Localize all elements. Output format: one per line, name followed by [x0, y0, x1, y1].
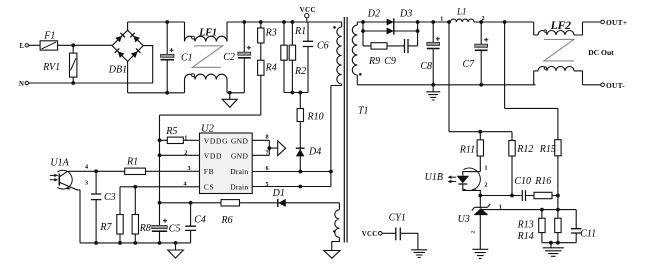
svg-text:L1: L1 [456, 7, 467, 17]
svg-text:F1: F1 [43, 31, 55, 42]
svg-text:D2: D2 [367, 8, 380, 19]
svg-text:3: 3 [188, 165, 191, 172]
svg-text:DB1: DB1 [108, 65, 127, 76]
svg-text:3: 3 [472, 188, 478, 191]
svg-text:R8: R8 [139, 223, 151, 234]
svg-text:C11: C11 [580, 229, 596, 240]
svg-text:8: 8 [266, 134, 269, 141]
svg-text:3: 3 [85, 179, 88, 186]
svg-text:1: 1 [440, 15, 443, 22]
svg-text:DC Out: DC Out [588, 48, 614, 57]
svg-text:4: 4 [184, 181, 187, 188]
svg-text:R4: R4 [265, 62, 277, 73]
svg-text:1: 1 [184, 134, 187, 141]
svg-text:U1A: U1A [50, 157, 69, 168]
svg-text:OUT+: OUT+ [606, 18, 627, 27]
svg-text:C2: C2 [223, 52, 235, 63]
svg-text:7: 7 [266, 149, 269, 156]
svg-text:C5: C5 [169, 224, 181, 235]
svg-text:2: 2 [184, 149, 187, 156]
svg-text:GND: GND [231, 151, 249, 160]
svg-text:VCC: VCC [300, 6, 316, 14]
svg-text:1: 1 [484, 165, 487, 172]
svg-text:R5: R5 [165, 126, 177, 137]
svg-text:FB: FB [204, 167, 215, 176]
svg-text:R11: R11 [459, 145, 475, 156]
svg-text:C10: C10 [514, 176, 531, 187]
svg-text:N: N [19, 81, 24, 88]
svg-text:OUT-: OUT- [606, 81, 625, 90]
svg-text:Drain: Drain [230, 167, 248, 176]
svg-text:D3: D3 [399, 8, 412, 19]
svg-text:R12: R12 [516, 144, 533, 155]
svg-text:D1: D1 [272, 188, 285, 199]
svg-text:VDD: VDD [204, 151, 222, 160]
svg-text:C7: C7 [463, 59, 476, 70]
svg-text:LF2: LF2 [550, 20, 572, 32]
svg-text:U1B: U1B [425, 172, 443, 183]
svg-text:R15: R15 [539, 144, 556, 155]
svg-text:5: 5 [266, 181, 269, 188]
svg-text:LF1: LF1 [198, 27, 217, 38]
svg-text:C9: C9 [384, 56, 396, 67]
svg-text:Drain: Drain [230, 183, 248, 192]
svg-text:2: 2 [470, 231, 476, 234]
svg-text:R1: R1 [294, 26, 306, 37]
svg-text:2: 2 [484, 182, 487, 189]
svg-text:U3: U3 [458, 214, 470, 225]
svg-text:6: 6 [266, 165, 269, 172]
svg-text:C6: C6 [317, 41, 329, 52]
svg-text:VDDG: VDDG [204, 137, 228, 146]
svg-text:R2: R2 [294, 66, 306, 77]
svg-text:CY1: CY1 [389, 212, 406, 223]
svg-text:VCC: VCC [362, 231, 378, 238]
svg-text:R10: R10 [307, 112, 324, 123]
svg-text:C1: C1 [181, 53, 193, 64]
svg-text:R9: R9 [368, 56, 380, 67]
svg-text:C3: C3 [104, 192, 116, 203]
svg-text:R16: R16 [534, 176, 551, 187]
svg-text:R3: R3 [265, 28, 277, 39]
svg-text:D4: D4 [308, 147, 321, 158]
svg-text:RV1: RV1 [42, 62, 60, 73]
svg-text:2: 2 [482, 15, 485, 22]
svg-text:4: 4 [85, 164, 88, 171]
svg-text:L: L [20, 43, 25, 50]
svg-text:GND: GND [231, 137, 249, 146]
svg-text:U2: U2 [201, 123, 215, 134]
svg-text:R7: R7 [99, 222, 112, 233]
svg-text:R6: R6 [221, 215, 233, 226]
svg-text:R13: R13 [517, 220, 534, 231]
svg-text:C4: C4 [194, 215, 206, 226]
svg-text:C8: C8 [420, 61, 432, 72]
svg-text:1: 1 [499, 204, 502, 211]
svg-text:R1: R1 [126, 157, 138, 168]
svg-text:CS: CS [204, 183, 215, 192]
svg-text:R14: R14 [517, 231, 534, 242]
svg-text:T1: T1 [358, 105, 369, 116]
